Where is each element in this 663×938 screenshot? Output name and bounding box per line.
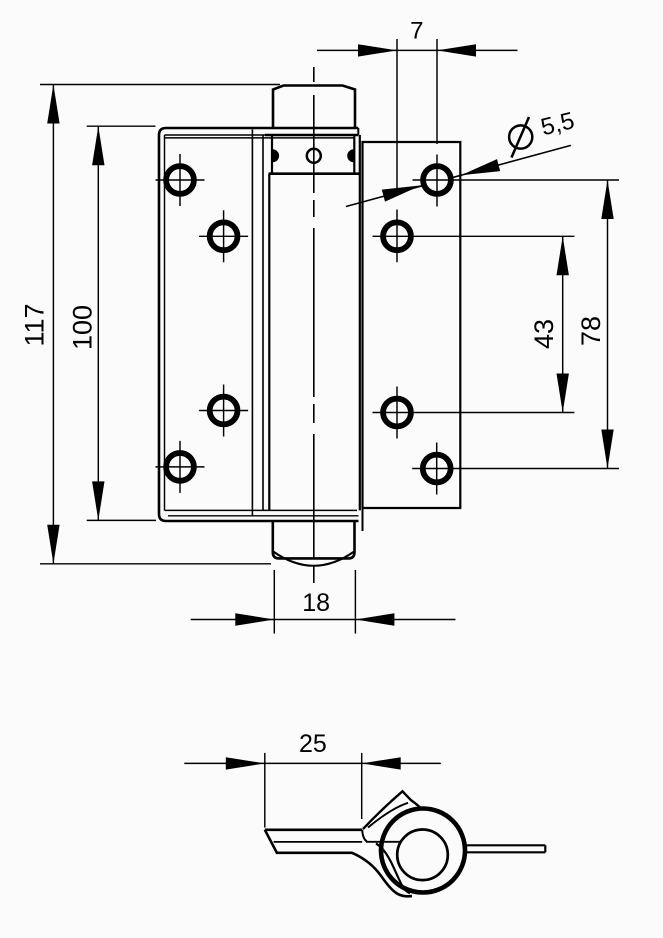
svg-text:78: 78 — [576, 316, 606, 346]
svg-text:43: 43 — [529, 319, 559, 349]
svg-text:25: 25 — [299, 730, 327, 758]
svg-text:18: 18 — [302, 589, 330, 617]
svg-text:7: 7 — [410, 17, 423, 44]
svg-text:100: 100 — [68, 305, 98, 350]
svg-text:117: 117 — [19, 303, 49, 346]
